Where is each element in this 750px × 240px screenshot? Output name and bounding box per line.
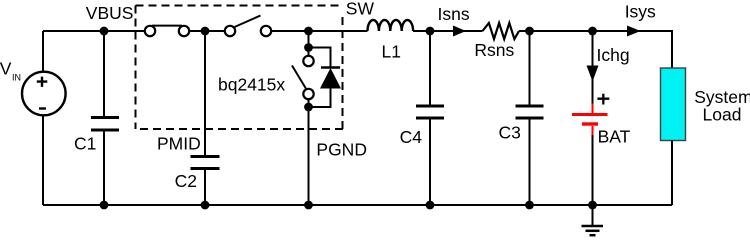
- svg-text:V: V: [0, 58, 12, 78]
- svg-text:C3: C3: [499, 123, 521, 143]
- inductor L1: [368, 20, 414, 31]
- label Rsns: [474, 40, 514, 60]
- wire: switch Q2 to SW node exit: [272, 30, 368, 32]
- wire: low-side branch lower to bottom rail (PGND): [308, 99, 310, 205]
- system load block: [661, 68, 686, 141]
- svg-text:bq2415x: bq2415x: [218, 75, 285, 95]
- battery BAT: [572, 104, 608, 136]
- current arrow Isys: [627, 26, 641, 37]
- wire: battery branch lower to bottom rail: [592, 135, 594, 205]
- capacitor C4: [416, 31, 444, 205]
- wire: system load bottom to rail: [671, 141, 673, 206]
- label C4: [400, 127, 423, 147]
- label L1: [382, 41, 401, 61]
- label VIN: [0, 58, 21, 82]
- junction: PMID top: [201, 27, 210, 36]
- junction: low-side branch top: [304, 27, 313, 36]
- svg-text:IN: IN: [12, 73, 21, 83]
- capacitor C3: [516, 31, 544, 205]
- junction: VBUS top: [100, 27, 109, 36]
- wire: L1 to Rsns: [413, 30, 483, 32]
- label System Load: [694, 87, 750, 125]
- junction: C4 top: [426, 27, 435, 36]
- IC boundary dashed box bq2415x: [136, 6, 344, 130]
- label C3: [499, 123, 521, 143]
- current arrow Isns: [453, 26, 466, 37]
- label C1: [74, 133, 96, 153]
- svg-text:SW: SW: [346, 0, 375, 18]
- node PGND label: [316, 140, 367, 160]
- battery plus sign: [597, 94, 609, 105]
- wire: VIN vertical stub top: [42, 31, 44, 72]
- wire: PMID branch down to C2: [204, 31, 206, 155]
- node SW label: [346, 0, 375, 18]
- svg-text:Isys: Isys: [625, 1, 656, 21]
- junction: C1 bottom: [100, 201, 109, 210]
- label bq2415x: [218, 75, 285, 95]
- wire: between switches through PMID node: [190, 30, 225, 32]
- junction: C4 bottom: [426, 201, 435, 210]
- svg-text:Isns: Isns: [438, 4, 470, 24]
- svg-text:BAT: BAT: [598, 126, 631, 146]
- svg-text:C4: C4: [400, 127, 423, 147]
- svg-text:C1: C1: [74, 133, 96, 153]
- junction: battery bottom / ground node: [588, 201, 597, 210]
- label C2: [175, 171, 197, 191]
- node PMID label: [157, 134, 201, 154]
- junction: low-side lower node: [304, 103, 313, 112]
- svg-text:Rsns: Rsns: [474, 40, 514, 60]
- node VBUS label: [86, 3, 134, 23]
- svg-text:PMID: PMID: [157, 134, 201, 154]
- svg-text:L1: L1: [382, 41, 401, 61]
- switch Q1 (closed, input FET): [145, 26, 189, 37]
- diode D1 (body diode of low-side FET): [309, 48, 342, 108]
- junction: C3 bottom: [525, 201, 534, 210]
- junction: C2 bottom: [201, 201, 210, 210]
- label Isns: [438, 4, 470, 24]
- junction: battery branch top: [588, 27, 597, 36]
- svg-text:C2: C2: [175, 171, 197, 191]
- label Ichg: [597, 45, 630, 65]
- resistor Rsns: [483, 23, 520, 39]
- svg-text:Ichg: Ichg: [597, 45, 630, 65]
- wire: low-side branch upper: [308, 31, 310, 56]
- wire: bottom ground rail: [43, 204, 672, 206]
- junction: PGND bottom: [304, 201, 313, 210]
- label Isys: [625, 1, 656, 21]
- svg-text:Load: Load: [703, 105, 742, 125]
- capacitor C2: [191, 157, 220, 206]
- svg-text:PGND: PGND: [316, 140, 367, 160]
- ground symbol: [582, 205, 604, 235]
- switch Q3 (open, low-side FET): [292, 56, 314, 99]
- voltage source VIN: [22, 72, 66, 116]
- wire: Rsns to system load corner: [519, 31, 672, 68]
- wire: VIN vertical stub bottom to bottom rail: [42, 114, 44, 205]
- wire: top rail from VIN to first switch: [43, 30, 145, 32]
- junction: low-side upper node: [304, 43, 313, 52]
- wire: battery branch upper: [592, 31, 594, 104]
- label BAT: [598, 126, 631, 146]
- svg-text:VBUS: VBUS: [86, 3, 134, 23]
- capacitor C1: [91, 31, 119, 205]
- switch Q2 (open, high-side FET): [225, 16, 271, 37]
- current arrow Ichg: [587, 66, 599, 82]
- junction: C3 top: [525, 27, 534, 36]
